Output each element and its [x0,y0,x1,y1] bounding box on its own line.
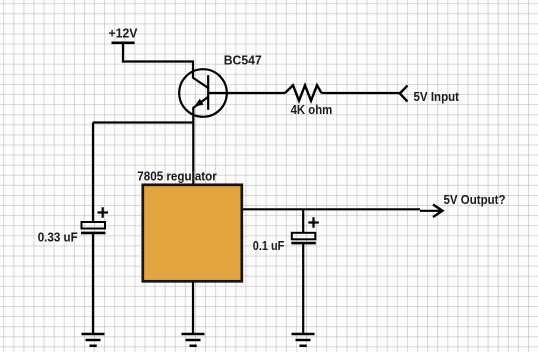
output arrow head [433,205,443,218]
capacitor C1 value 0.33 uF [38,230,78,245]
wire transistor base to resistor [208,92,285,94]
wire regulator to ground [192,283,194,335]
svg-text:0.1 uF: 0.1 uF [253,238,285,253]
svg-text:+12V: +12V [109,26,138,41]
resistor R1 zigzag [285,85,322,100]
capacitor C2 top plate [292,233,316,240]
regulator U1 7805 box [143,185,242,281]
ground G2 [182,334,205,346]
wire capacitor C1 to ground [92,233,94,334]
wire capacitor C2 to ground [302,243,304,334]
transistor Q1 collector diagonal [193,78,208,88]
transistor Q1 BC547 circle [179,69,227,117]
wire left vertical down to capacitor C1 [92,123,94,223]
wire resistor to 5V input terminal [322,92,401,94]
capacitor C2 value 0.1 uF [253,238,285,253]
transistor Q1 emitter diagonal with arrow [194,97,209,108]
ground G1 [82,334,105,346]
input terminal chevron [400,86,408,102]
wire emitter down to regulator input [192,107,194,184]
svg-text:5V Output?: 5V Output? [444,192,506,207]
capacitor C2 plus sign [308,217,319,227]
resistor value 4K ohm [291,102,333,117]
transistor label BC547 [224,53,262,68]
svg-text:7805 regulator: 7805 regulator [137,169,217,184]
capacitor C1 plus sign [98,207,109,217]
svg-text:BC547: BC547 [224,53,262,68]
regulator label 7805 regulator [137,169,217,184]
capacitor C2 bottom plate [291,242,316,245]
wire output to capacitor C2 [302,209,304,233]
label 5V Input [414,89,460,104]
power +12V bar symbol [112,41,135,44]
svg-text:5V Input: 5V Input [414,89,460,104]
ground G3 [292,334,315,346]
power +12V label [109,26,138,41]
label 5V Output? [444,192,506,207]
capacitor C1 top plate [82,222,106,229]
capacitor C1 bottom plate [81,232,106,235]
transistor Q1 base bar [207,75,209,110]
wire from +12V to transistor collector [123,43,193,79]
svg-text:4K ohm: 4K ohm [291,102,333,117]
wire junction left horizontal [93,121,194,123]
svg-text:0.33 uF: 0.33 uF [38,230,78,245]
wire regulator output [243,209,441,211]
